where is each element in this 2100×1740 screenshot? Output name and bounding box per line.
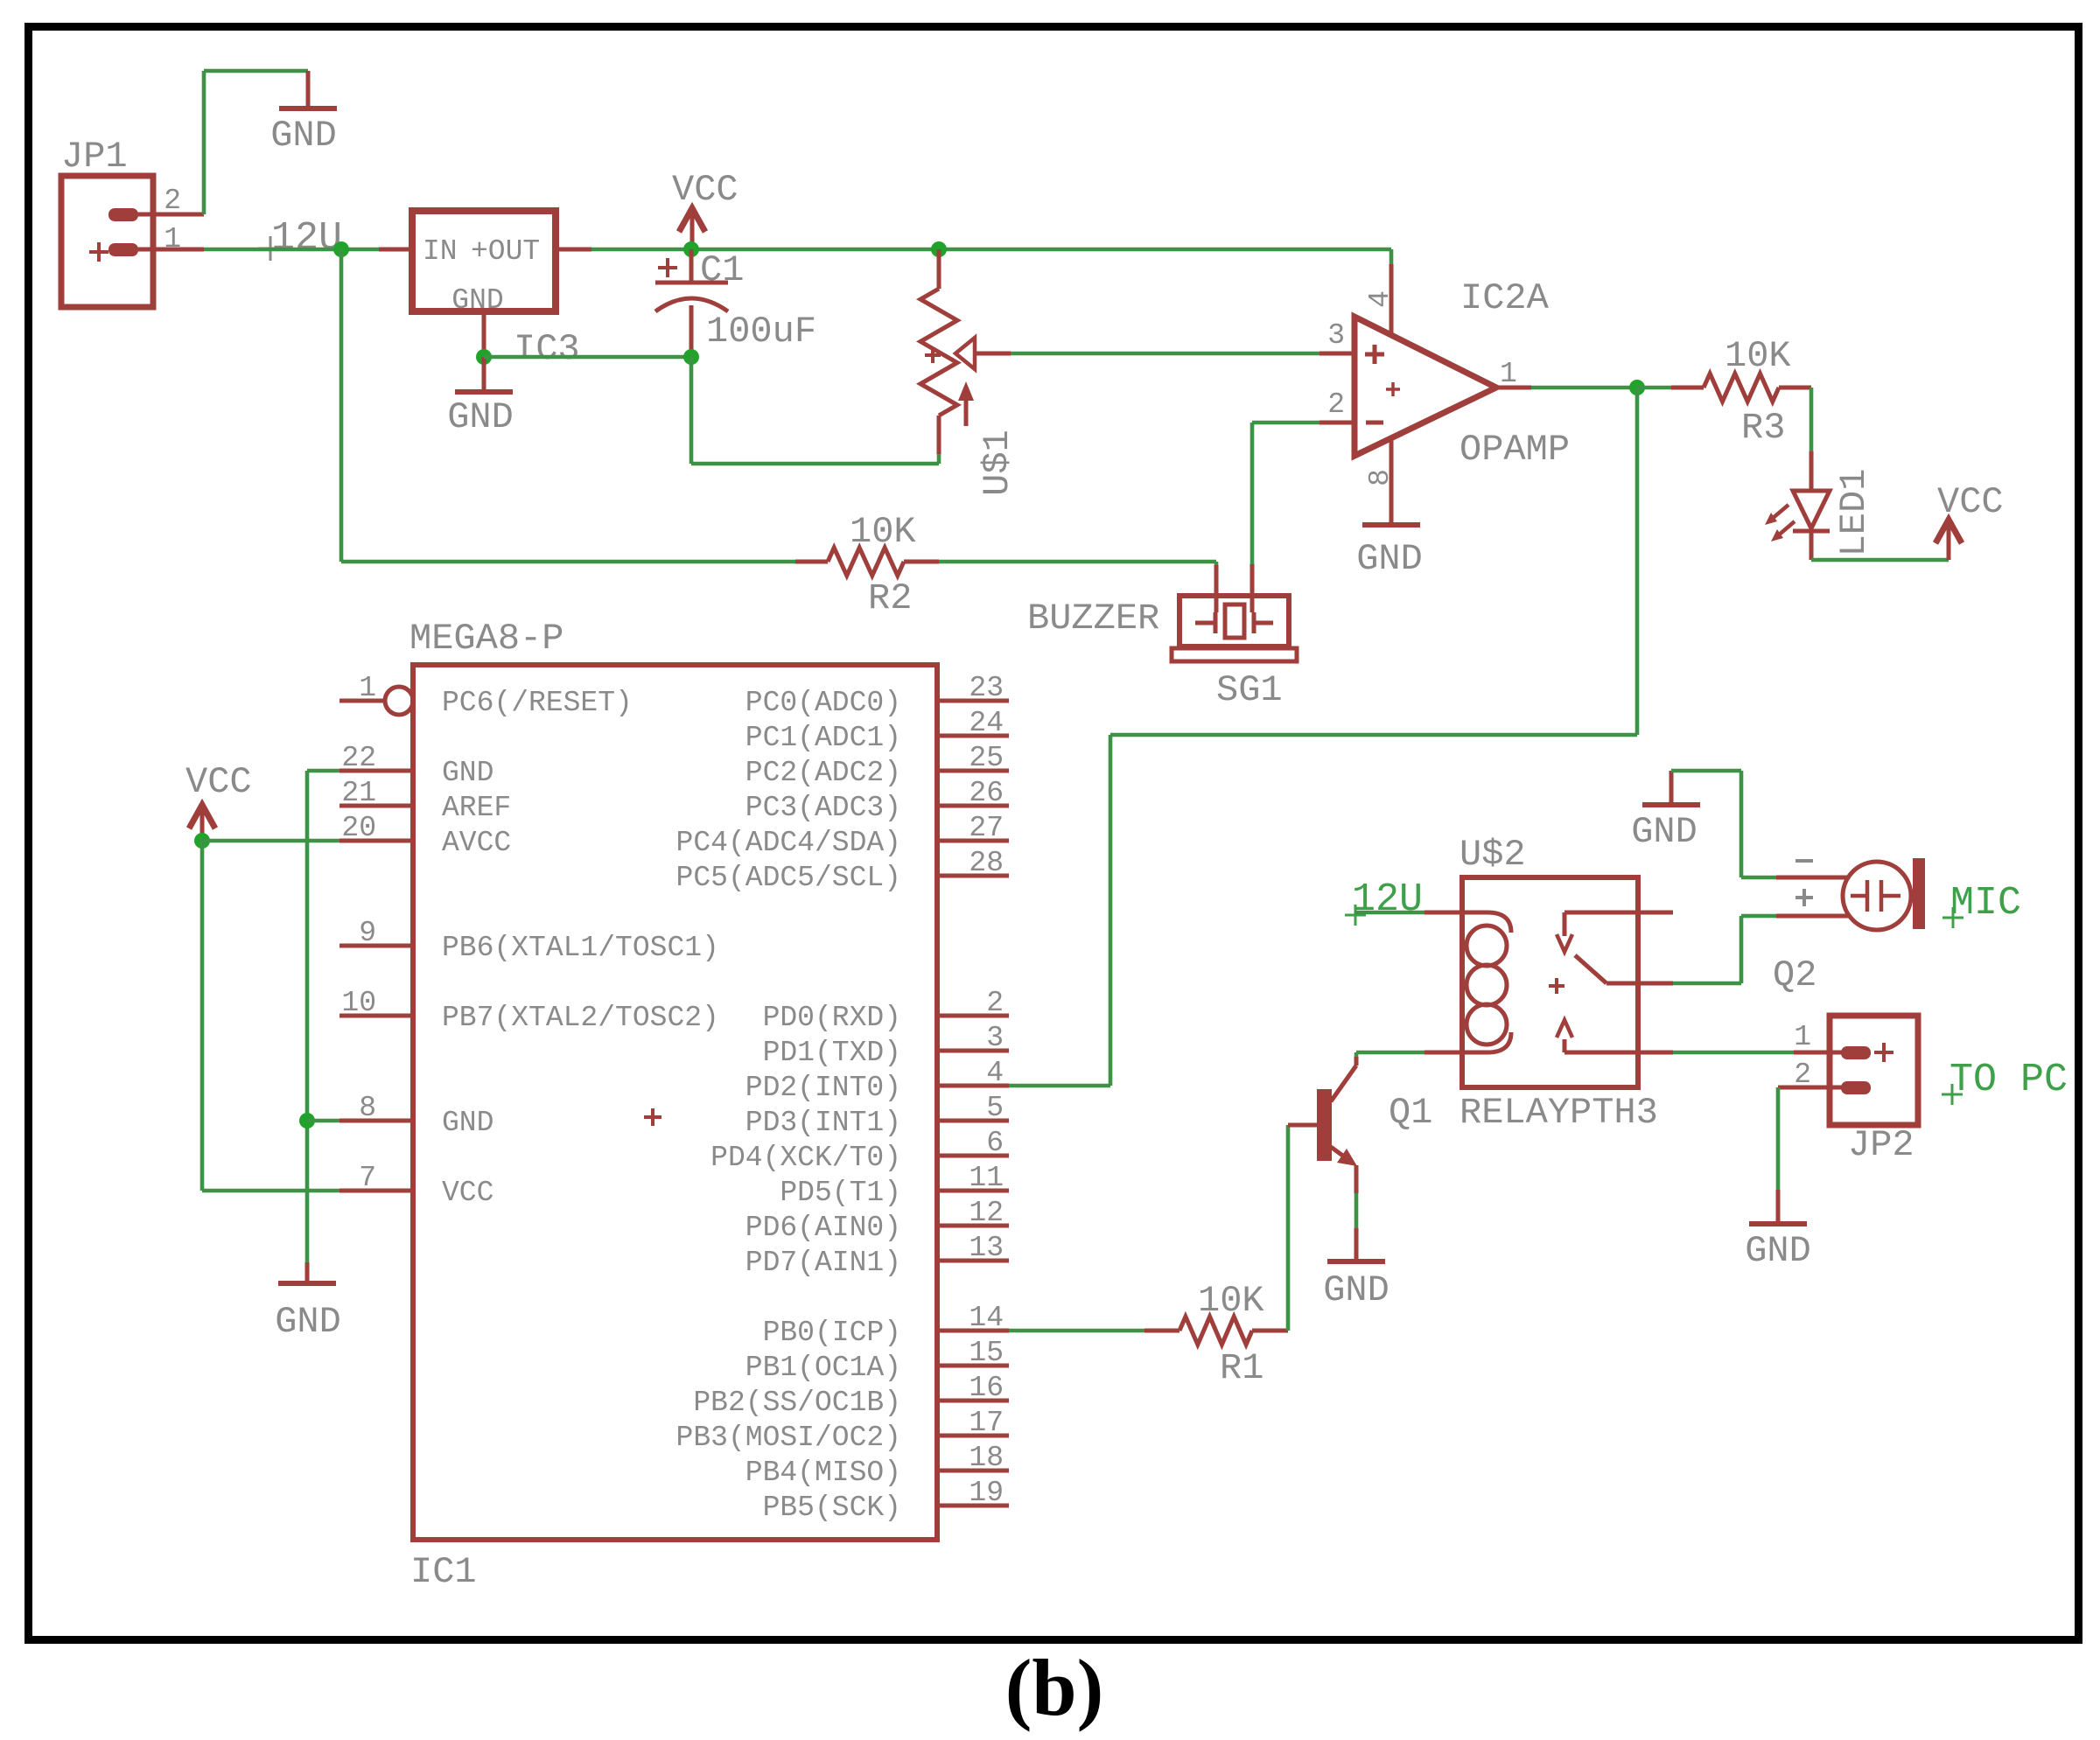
svg-text:2: 2 bbox=[1327, 388, 1345, 421]
junction IC3 ground node bbox=[476, 349, 492, 365]
svg-text:R2: R2 bbox=[868, 577, 912, 619]
svg-text:AREF: AREF bbox=[442, 792, 511, 824]
svg-text:7: 7 bbox=[359, 1162, 376, 1194]
label U$2 bbox=[1459, 834, 1526, 876]
junction 12V rail bbox=[333, 241, 349, 257]
label OPAMP bbox=[1459, 429, 1570, 471]
svg-text:PC2(ADC2): PC2(ADC2) bbox=[745, 757, 901, 789]
svg-text:12: 12 bbox=[969, 1197, 1004, 1229]
svg-text:6: 6 bbox=[986, 1127, 1004, 1159]
resistor R1 10K bbox=[1144, 1317, 1288, 1345]
svg-text:8: 8 bbox=[1364, 469, 1396, 486]
svg-text:21: 21 bbox=[341, 777, 376, 809]
ground GND (MIC) bbox=[1631, 771, 1700, 853]
potentiometer U$1 bbox=[920, 249, 1011, 454]
svg-text:10K: 10K bbox=[850, 511, 916, 553]
wire Q1 collector to relay coil bbox=[1356, 1052, 1424, 1057]
JP2 pin 1 number bbox=[1794, 1021, 1811, 1053]
svg-text:IN: IN bbox=[423, 235, 458, 268]
JP1 pin 2 number bbox=[164, 185, 181, 217]
ground GND (top left) bbox=[270, 71, 337, 157]
svg-text:+OUT: +OUT bbox=[471, 235, 540, 268]
wire C1 bottom to U$1 bottom bbox=[691, 357, 939, 464]
relay U$2 bbox=[1424, 877, 1673, 1087]
connector JP2 bbox=[1778, 1016, 1918, 1125]
IC1 pin 1 PC6(/RESET) bbox=[339, 672, 633, 719]
label 10K (R1) bbox=[1198, 1280, 1264, 1322]
svg-text:PC6(/RESET): PC6(/RESET) bbox=[442, 687, 633, 719]
IC1 pin 5 PD3(INT1) bbox=[745, 1092, 1009, 1139]
IC1 pin 13 PD7(AIN1) bbox=[745, 1232, 1009, 1279]
wire opamp pin4 from rail bbox=[1389, 249, 1394, 264]
IC1 pin 23 PC0(ADC0) bbox=[745, 672, 1009, 719]
label RELAYPTH3 bbox=[1459, 1092, 1658, 1134]
wire 12V to R2 bbox=[341, 560, 795, 564]
IC2A pin 2 number bbox=[1327, 388, 1345, 421]
wire relay to JP2 pin1 bbox=[1673, 1051, 1794, 1055]
svg-text:PB1(OC1A): PB1(OC1A) bbox=[745, 1352, 901, 1384]
IC1 pin 27 PC4(ADC4/SDA) bbox=[676, 812, 1009, 859]
svg-text:Q2: Q2 bbox=[1773, 954, 1816, 996]
wire VCC to AVCC pin20 bbox=[202, 839, 339, 843]
wire buzzer to opamp pin2 bbox=[1252, 423, 1319, 564]
svg-text:IC3: IC3 bbox=[514, 328, 580, 370]
label C1 bbox=[700, 249, 744, 291]
svg-text:17: 17 bbox=[969, 1407, 1004, 1439]
svg-text:4: 4 bbox=[1364, 290, 1396, 308]
svg-text:27: 27 bbox=[969, 812, 1004, 844]
IC1 pin 28 PC5(ADC5/SCL) bbox=[676, 847, 1009, 894]
svg-text:OPAMP: OPAMP bbox=[1459, 429, 1570, 471]
net label 12U bbox=[258, 216, 342, 261]
IC1 pin 6 PD4(XCK/T0) bbox=[710, 1127, 1009, 1174]
svg-text:PB2(SS/OC1B): PB2(SS/OC1B) bbox=[693, 1387, 901, 1419]
voltage regulator IC3 bbox=[379, 211, 591, 370]
svg-text:U$2: U$2 bbox=[1459, 834, 1526, 876]
ground GND (opamp pin 8) bbox=[1356, 525, 1423, 580]
svg-text:5: 5 bbox=[986, 1092, 1004, 1124]
IC1 pin 9 PB6(XTAL1/TOSC1) bbox=[339, 917, 719, 964]
wire IC1 pin14 to R1 bbox=[1009, 1329, 1144, 1333]
svg-text:IC2A: IC2A bbox=[1460, 277, 1550, 319]
svg-text:1: 1 bbox=[1794, 1021, 1811, 1053]
wire VCC rail IC3 to opamp pin4 bbox=[591, 248, 1391, 252]
wire R3 to LED1 bbox=[1809, 388, 1814, 451]
label R3 bbox=[1741, 407, 1785, 449]
svg-text:8: 8 bbox=[359, 1092, 376, 1124]
IC1 pin 3 PD1(TXD) bbox=[763, 1022, 1009, 1069]
svg-text:GND: GND bbox=[1631, 811, 1697, 853]
svg-text:TO PC: TO PC bbox=[1949, 1058, 2068, 1102]
junction GND rail pin8 bbox=[299, 1113, 315, 1129]
svg-text:AVCC: AVCC bbox=[442, 827, 511, 859]
junction C1 top bbox=[683, 241, 699, 257]
ground GND (under IC3) bbox=[447, 357, 514, 438]
svg-text:GND: GND bbox=[442, 757, 493, 789]
svg-text:PD4(XCK/T0): PD4(XCK/T0) bbox=[710, 1142, 901, 1174]
svg-text:PB6(XTAL1/TOSC1): PB6(XTAL1/TOSC1) bbox=[442, 932, 719, 964]
svg-text:14: 14 bbox=[969, 1302, 1004, 1334]
svg-text:PD0(RXD): PD0(RXD) bbox=[763, 1002, 901, 1034]
IC1 pin 17 PB3(MOSI/OC2) bbox=[676, 1407, 1009, 1454]
svg-text:2: 2 bbox=[986, 987, 1004, 1019]
junction C1 bottom bbox=[683, 349, 699, 365]
wire opamp out to IC1 pin4 bbox=[1009, 388, 1637, 1086]
wire VCC down to pin7 bbox=[202, 841, 339, 1191]
wire 12V rail JP1 to IC3 bbox=[204, 248, 379, 252]
svg-text:PB3(MOSI/OC2): PB3(MOSI/OC2) bbox=[676, 1422, 901, 1454]
label SG1 bbox=[1216, 669, 1283, 711]
IC1 origin cross bbox=[644, 1108, 661, 1126]
svg-text:24: 24 bbox=[969, 707, 1004, 739]
capacitor C1 100uF bbox=[655, 249, 728, 357]
svg-text:100uF: 100uF bbox=[706, 311, 816, 353]
label Q2 bbox=[1773, 954, 1816, 996]
svg-text:20: 20 bbox=[341, 812, 376, 844]
svg-text:PC1(ADC1): PC1(ADC1) bbox=[745, 722, 901, 754]
buzzer SG1 bbox=[1172, 564, 1297, 661]
svg-text:R3: R3 bbox=[1741, 407, 1785, 449]
svg-text:IC1: IC1 bbox=[410, 1551, 477, 1593]
svg-text:23: 23 bbox=[969, 672, 1004, 704]
label R2 bbox=[868, 577, 912, 619]
transistor Q1 bbox=[1288, 1057, 1357, 1193]
svg-text:SG1: SG1 bbox=[1216, 669, 1283, 711]
svg-text:2: 2 bbox=[1794, 1059, 1811, 1091]
IC1 pin 2 PD0(RXD) bbox=[763, 987, 1009, 1034]
svg-text:GND: GND bbox=[270, 115, 337, 157]
label IC1 bbox=[410, 1551, 477, 1593]
wire LED1 to VCC bbox=[1811, 558, 1949, 563]
svg-text:PD3(INT1): PD3(INT1) bbox=[745, 1107, 901, 1139]
IC1 pin 8 GND bbox=[339, 1092, 493, 1139]
wire MIC minus to GND bbox=[1671, 771, 1776, 877]
svg-text:C1: C1 bbox=[700, 249, 744, 291]
label BUZZER bbox=[1027, 597, 1159, 639]
resistor R2 10K bbox=[795, 548, 939, 576]
caption (b) bbox=[1005, 1643, 1103, 1732]
svg-text:PD2(INT0): PD2(INT0) bbox=[745, 1072, 901, 1104]
net label 12U (relay) bbox=[1345, 877, 1423, 926]
IC1 pin 21 AREF bbox=[339, 777, 511, 824]
svg-text:18: 18 bbox=[969, 1442, 1004, 1474]
svg-text:10K: 10K bbox=[1725, 335, 1791, 377]
svg-text:VCC: VCC bbox=[442, 1177, 493, 1209]
svg-text:PD1(TXD): PD1(TXD) bbox=[763, 1037, 901, 1069]
IC2A pin 4 number bbox=[1364, 290, 1396, 308]
IC1 pin 7 VCC bbox=[339, 1162, 493, 1209]
wire R1 to Q1 base bbox=[1286, 1125, 1291, 1331]
IC1 pin 22 GND bbox=[339, 742, 493, 789]
svg-text:R1: R1 bbox=[1220, 1347, 1263, 1389]
wire opamp out bbox=[1531, 386, 1637, 390]
wire GND rail pin8 stub bbox=[307, 1119, 339, 1123]
connector JP1 bbox=[61, 136, 204, 307]
microphone MIC bbox=[1776, 858, 1925, 930]
label 100uF bbox=[706, 311, 816, 353]
svg-text:PB7(XTAL2/TOSC2): PB7(XTAL2/TOSC2) bbox=[442, 1002, 719, 1034]
wire out to R3 bbox=[1637, 386, 1671, 390]
svg-text:16: 16 bbox=[969, 1372, 1004, 1404]
label U$1 bbox=[976, 430, 1018, 496]
IC1 pin 19 PB5(SCK) bbox=[763, 1477, 1009, 1524]
ground GND (JP2) bbox=[1745, 1190, 1811, 1272]
IC2A pin 3 number bbox=[1327, 319, 1345, 352]
resistor R3 10K bbox=[1671, 374, 1811, 402]
svg-text:3: 3 bbox=[1327, 319, 1345, 352]
svg-text:GND: GND bbox=[1745, 1230, 1811, 1272]
label R1 bbox=[1220, 1347, 1263, 1389]
IC1 pin 4 PD2(INT0) bbox=[745, 1057, 1009, 1104]
svg-text:PD7(AIN1): PD7(AIN1) bbox=[745, 1247, 901, 1279]
svg-text:GND: GND bbox=[451, 284, 503, 317]
wire GND rail vertical bbox=[305, 771, 310, 1262]
svg-text:9: 9 bbox=[359, 917, 376, 949]
IC1 pin 24 PC1(ADC1) bbox=[745, 707, 1009, 754]
label 10K (R2) bbox=[850, 511, 916, 553]
net label MIC bbox=[1942, 881, 2021, 928]
wire IC3 gnd to C1 bottom bbox=[484, 355, 691, 360]
label Q1 bbox=[1389, 1092, 1432, 1134]
svg-text:13: 13 bbox=[969, 1232, 1004, 1264]
svg-text:19: 19 bbox=[969, 1477, 1004, 1509]
svg-text:26: 26 bbox=[969, 777, 1004, 809]
svg-text:1: 1 bbox=[1500, 358, 1517, 390]
op-amp IC2A bbox=[1319, 264, 1531, 525]
IC1 pin 10 PB7(XTAL2/TOSC2) bbox=[339, 987, 719, 1034]
power VCC (above C1) bbox=[672, 169, 738, 249]
power VCC (left of IC1) bbox=[185, 761, 252, 841]
IC1 pin 25 PC2(ADC2) bbox=[745, 742, 1009, 789]
junction opamp out bbox=[1629, 380, 1645, 395]
svg-text:1: 1 bbox=[359, 672, 376, 704]
label IC2A bbox=[1460, 277, 1550, 319]
IC1 pin 12 PD6(AIN0) bbox=[745, 1197, 1009, 1244]
wire JP2 pin2 to GND bbox=[1776, 1087, 1781, 1190]
svg-text:LED1: LED1 bbox=[1833, 469, 1875, 557]
svg-text:GND: GND bbox=[275, 1301, 341, 1343]
wire GND rail pin22 bbox=[307, 769, 339, 773]
label LED1 bbox=[1833, 469, 1875, 557]
svg-text:GND: GND bbox=[1323, 1269, 1389, 1311]
svg-text:GND: GND bbox=[442, 1107, 493, 1139]
svg-text:VCC: VCC bbox=[672, 169, 738, 211]
wire 12V to relay coil bbox=[1354, 911, 1424, 915]
svg-text:4: 4 bbox=[986, 1057, 1004, 1089]
svg-text:PD6(AIN0): PD6(AIN0) bbox=[745, 1212, 901, 1244]
JP2 pin 2 number bbox=[1794, 1059, 1811, 1091]
IC1 pin 26 PC3(ADC3) bbox=[745, 777, 1009, 824]
IC2A pin 1 number bbox=[1500, 358, 1517, 390]
svg-text:BUZZER: BUZZER bbox=[1027, 597, 1159, 639]
label JP2 bbox=[1848, 1124, 1914, 1166]
IC1 pin 18 PB4(MISO) bbox=[745, 1442, 1009, 1489]
svg-text:(b): (b) bbox=[1005, 1643, 1103, 1732]
IC1 pin 11 PD5(T1) bbox=[780, 1162, 1009, 1209]
svg-text:25: 25 bbox=[969, 742, 1004, 774]
wire U$1 wiper to opamp pin3 bbox=[1011, 352, 1319, 356]
label MEGA8-P bbox=[409, 618, 563, 660]
svg-text:GND: GND bbox=[447, 396, 514, 438]
ground GND (Q1 emitter) bbox=[1323, 1228, 1389, 1311]
svg-text:12U: 12U bbox=[271, 216, 342, 261]
svg-text:PB5(SCK): PB5(SCK) bbox=[763, 1492, 901, 1524]
svg-text:11: 11 bbox=[969, 1162, 1004, 1194]
svg-text:PC0(ADC0): PC0(ADC0) bbox=[745, 687, 901, 719]
svg-text:U$1: U$1 bbox=[976, 430, 1018, 496]
svg-text:JP2: JP2 bbox=[1848, 1124, 1914, 1166]
wire R2 to buzzer bbox=[939, 562, 1216, 565]
IC1 pin 14 PB0(ICP) bbox=[763, 1302, 1009, 1349]
IC1 pin 20 AVCC bbox=[339, 812, 511, 859]
ground GND (below IC1) bbox=[275, 1262, 341, 1343]
label 10K (R3) bbox=[1725, 335, 1791, 377]
wire Q1 emitter to GND bbox=[1354, 1193, 1359, 1228]
svg-text:PC3(ADC3): PC3(ADC3) bbox=[745, 792, 901, 824]
wire 12V down to R2 bbox=[339, 249, 344, 562]
svg-text:PB4(MISO): PB4(MISO) bbox=[745, 1457, 901, 1489]
svg-text:PD5(T1): PD5(T1) bbox=[780, 1177, 901, 1209]
net label TO PC bbox=[1942, 1058, 2068, 1105]
wire JP1 pin2 to GND bbox=[204, 71, 308, 214]
svg-text:2: 2 bbox=[164, 185, 181, 217]
power VCC (right) bbox=[1935, 481, 2004, 560]
svg-text:1: 1 bbox=[164, 223, 181, 255]
svg-text:PC4(ADC4/SDA): PC4(ADC4/SDA) bbox=[676, 827, 901, 859]
junction U$1 top bbox=[931, 241, 947, 257]
svg-text:10: 10 bbox=[341, 987, 376, 1019]
LED LED1 bbox=[1765, 451, 1830, 560]
svg-text:GND: GND bbox=[1356, 538, 1423, 580]
IC2A pin 8 number bbox=[1364, 469, 1396, 486]
svg-text:PC5(ADC5/SCL): PC5(ADC5/SCL) bbox=[676, 862, 901, 894]
svg-text:Q1: Q1 bbox=[1389, 1092, 1432, 1134]
svg-text:28: 28 bbox=[969, 847, 1004, 879]
IC1 pin 16 PB2(SS/OC1B) bbox=[693, 1372, 1009, 1419]
JP1 pin 1 number bbox=[164, 223, 181, 255]
svg-text:3: 3 bbox=[986, 1022, 1004, 1054]
svg-text:15: 15 bbox=[969, 1337, 1004, 1369]
svg-text:JP1: JP1 bbox=[61, 136, 128, 178]
svg-text:VCC: VCC bbox=[185, 761, 252, 803]
wire relay contact to MIC plus bbox=[1673, 916, 1776, 983]
junction AVCC node bbox=[194, 833, 210, 849]
svg-text:MEGA8-P: MEGA8-P bbox=[409, 618, 563, 660]
svg-text:RELAYPTH3: RELAYPTH3 bbox=[1459, 1092, 1658, 1134]
svg-text:10K: 10K bbox=[1198, 1280, 1264, 1322]
IC IC1 MEGA8-P box bbox=[413, 665, 937, 1540]
svg-text:22: 22 bbox=[341, 742, 376, 774]
svg-text:PB0(ICP): PB0(ICP) bbox=[763, 1317, 901, 1349]
IC1 pin 15 PB1(OC1A) bbox=[745, 1337, 1009, 1384]
